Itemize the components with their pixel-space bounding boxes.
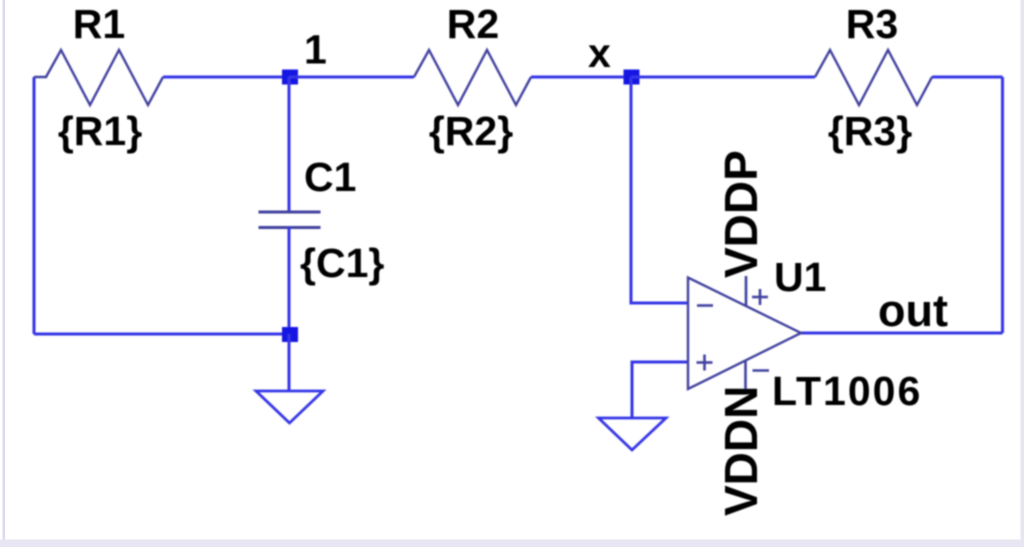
svg-text:{C1}: {C1} — [300, 240, 384, 286]
svg-text:{R3}: {R3} — [828, 108, 912, 154]
wire: non-inverting input to ground — [632, 362, 688, 417]
wire: bottom horizontal to lower junction — [34, 333, 289, 336]
wire: left vertical (feedback loop left side) — [33, 77, 36, 334]
svg-text:VDDP: VDDP — [715, 150, 767, 278]
op-amp V+ power pin — [745, 276, 748, 307]
svg-text:LT1006: LT1006 — [772, 368, 922, 414]
wire: R3 to right corner — [932, 76, 1003, 79]
svg-text:1: 1 — [304, 27, 327, 73]
capacitor C1 — [259, 212, 321, 228]
wire: R1 to node 1 — [163, 76, 289, 79]
node x junction — [624, 70, 640, 85]
wire: node 1 down to C1 — [288, 77, 291, 212]
svg-text:R2: R2 — [447, 1, 499, 47]
resistor R1 — [34, 50, 163, 105]
svg-text:x: x — [588, 30, 611, 76]
wire: node 1 to R2 — [289, 76, 414, 79]
ground (under C1) — [256, 391, 323, 423]
resistor R3 — [815, 50, 932, 105]
wire: junction to ground stub — [288, 334, 291, 390]
resistor R2 — [414, 50, 531, 105]
wire: node x down to inverting input — [631, 77, 688, 303]
ground (op-amp + input) — [599, 418, 667, 450]
svg-text:C1: C1 — [304, 154, 356, 200]
svg-text:{R2}: {R2} — [429, 108, 513, 154]
wire: node x to R3 — [631, 76, 815, 79]
op-amp V+ pin marker — [752, 289, 768, 305]
op-amp non-inverting input marker — [697, 355, 713, 371]
op-amp V- power pin — [744, 361, 747, 393]
wire: R2 to node x — [531, 76, 631, 79]
node 1 junction — [282, 70, 298, 85]
svg-text:R1: R1 — [73, 1, 125, 47]
svg-text:VDDN: VDDN — [715, 386, 767, 516]
op-amp V- pin marker — [753, 369, 770, 372]
wire: C1 to lower junction — [288, 228, 291, 335]
wire: right vertical (feedback from out) — [1001, 77, 1004, 333]
wire: output horizontal — [801, 332, 1003, 335]
lower junction node — [282, 327, 298, 342]
svg-text:{R1}: {R1} — [58, 108, 142, 154]
svg-text:R3: R3 — [846, 1, 898, 47]
op-amp inverting input marker — [697, 304, 713, 307]
svg-text:U1: U1 — [774, 254, 826, 300]
op-amp U1 triangle — [688, 278, 801, 390]
svg-text:out: out — [878, 285, 948, 336]
